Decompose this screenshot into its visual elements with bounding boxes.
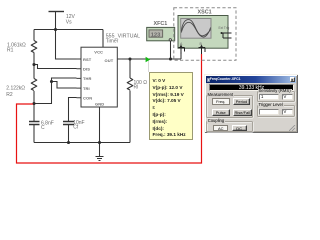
XSC1 oscilloscope icon: [178, 16, 232, 55]
resistor R2: [31, 79, 37, 91]
measurement group: [206, 95, 254, 118]
svg-text:Rl: Rl: [134, 85, 139, 91]
wire rail to R1: [33, 30, 35, 41]
wire OUT to Rl: [129, 59, 131, 78]
scope pin B: [199, 42, 206, 54]
wire VCC pin drop: [102, 30, 104, 48]
svg-text:RST: RST: [83, 57, 92, 62]
capacitor C leads: [33, 104, 35, 122]
red wire scope B to R2/C node: [17, 54, 202, 163]
resistor Rl: [127, 78, 133, 90]
wire node to THR riser: [34, 78, 77, 104]
svg-text:CON: CON: [83, 96, 92, 101]
svg-text:TRI: TRI: [83, 86, 90, 91]
XSC1 dashed boundary: [174, 8, 236, 60]
svg-text:R2: R2: [6, 92, 13, 98]
wire GND pin to ground: [99, 107, 101, 156]
wire OUT net: [118, 58, 182, 60]
wire ground bus: [34, 142, 130, 144]
svg-text:2.122kΩ: 2.122kΩ: [6, 86, 25, 92]
svg-text:R1: R1: [7, 48, 14, 54]
node OUT/Rl junction: [128, 57, 131, 60]
svg-text:123: 123: [151, 32, 161, 38]
wire CON to Cf: [69, 98, 77, 122]
svg-text:GND: GND: [95, 101, 104, 106]
svg-text:DIS: DIS: [83, 67, 90, 72]
svg-text:Timer: Timer: [106, 39, 119, 45]
coupling group: [206, 121, 253, 132]
node OUT/XFC1 junction: [169, 57, 172, 60]
svg-text:XSC1: XSC1: [198, 10, 212, 16]
wire node to R2: [33, 65, 35, 79]
ground symbol: [96, 157, 104, 161]
svg-text:Ext Trig: Ext Trig: [219, 26, 230, 30]
probe arrow (green): [148, 60, 150, 73]
wire XFC1 pin drop: [170, 41, 172, 59]
capacitor Cf lead to bus: [68, 125, 70, 143]
555 timer U1 box: [77, 47, 123, 112]
svg-text:THR: THR: [83, 76, 92, 81]
wire R2 to node THR/C: [33, 91, 35, 104]
svg-text:OUT: OUT: [105, 58, 114, 63]
XFC1 frequency counter icon: [147, 27, 175, 41]
wire node to DIS pin: [34, 65, 77, 69]
frequency counter dialog XFC1: [204, 74, 298, 133]
node R2/C/THR junction: [32, 102, 35, 105]
trigger group: [257, 105, 295, 116]
svg-text:XFC1: XFC1: [154, 21, 168, 27]
wire scope channel A drop: [180, 52, 182, 59]
probe readout box: [149, 72, 193, 140]
scope ext trig pin: [221, 32, 232, 38]
wire Rl to bus: [129, 91, 131, 143]
svg-text:C: C: [41, 125, 45, 131]
svg-text:Cf: Cf: [73, 125, 79, 131]
svg-text:VCC: VCC: [94, 49, 103, 54]
svg-text:Vs: Vs: [66, 20, 72, 26]
wire RST to rail: [56, 30, 77, 60]
node Cf/bus junction: [67, 141, 70, 144]
power source VS 12V tee: [49, 12, 65, 30]
wire TRI branch: [52, 82, 77, 89]
resistor R1: [31, 41, 37, 53]
wire R1 to node DIS: [33, 53, 35, 65]
capacitor C plates: [29, 122, 40, 125]
wire VCC rail: [34, 29, 103, 31]
sensitivity group: [257, 91, 295, 102]
node VS/rail junction: [54, 28, 57, 31]
capacitor Cf plates: [63, 122, 74, 125]
node R1/R2/DIS junction: [32, 63, 35, 66]
scope pin A: [179, 42, 185, 54]
node ground/bus junction: [98, 141, 101, 144]
resize grip: [289, 125, 296, 131]
node THR/TRI junction: [50, 80, 53, 83]
